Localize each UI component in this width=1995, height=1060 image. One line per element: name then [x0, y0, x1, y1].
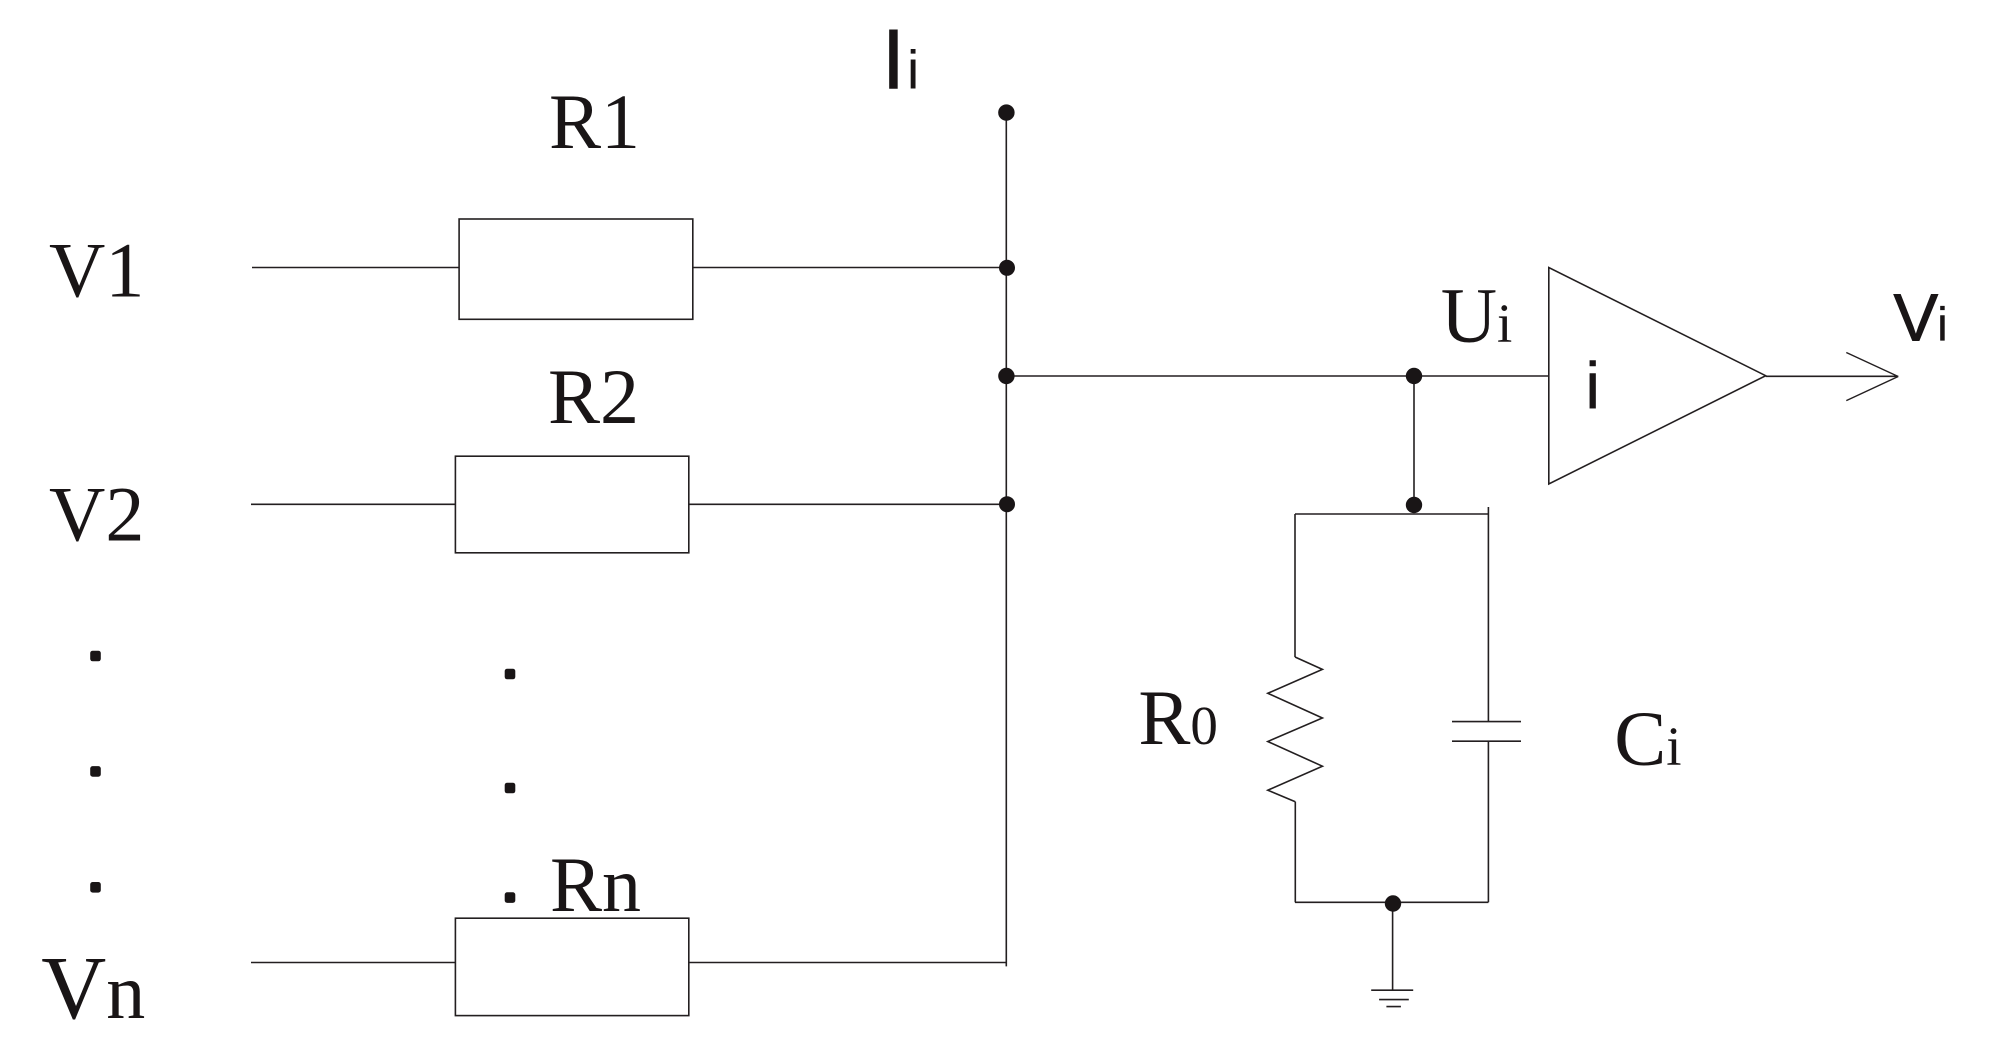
wire Vn input — [251, 962, 455, 964]
wire R1 to bus — [693, 267, 1007, 269]
svg-text:V2: V2 — [49, 470, 144, 557]
node Ii top dot — [998, 104, 1014, 120]
svg-text:i: i — [1937, 297, 1947, 350]
op-amp i — [1549, 268, 1766, 485]
ground — [1371, 990, 1413, 1006]
capacitor Ci — [1452, 722, 1521, 742]
wire node Ui — [1006, 375, 1549, 377]
ellipsis dots middle — [505, 669, 516, 680]
svg-text:i: i — [907, 39, 919, 101]
node V2-bus junction — [999, 496, 1015, 512]
svg-text:V1: V1 — [49, 227, 144, 314]
node RC top junction — [1406, 497, 1422, 513]
wire R2 to bus — [689, 503, 1007, 505]
node V1-bus junction — [999, 260, 1015, 276]
wire Ci top lead — [1487, 507, 1489, 721]
svg-text:i: i — [1585, 349, 1600, 423]
wire R0 bottom lead — [1294, 802, 1296, 903]
resistor R1 — [459, 219, 693, 319]
svg-text:Ui: Ui — [1441, 272, 1513, 359]
wire summing bus — [1005, 113, 1007, 967]
svg-text:I: I — [882, 13, 906, 108]
svg-text:Ci: Ci — [1614, 695, 1681, 782]
wire output Vi — [1766, 375, 1899, 377]
svg-text:Rn: Rn — [550, 841, 641, 928]
arrow output — [1846, 353, 1898, 401]
svg-text:R1: R1 — [549, 78, 640, 165]
resistor Rn — [455, 918, 688, 1015]
svg-text:R0: R0 — [1138, 674, 1218, 761]
svg-text:Vn: Vn — [41, 939, 145, 1038]
node bus-Ui junction — [998, 368, 1014, 384]
wire R0 top lead — [1294, 514, 1296, 657]
svg-text:R2: R2 — [548, 353, 639, 440]
wire Rn to bus — [689, 962, 1007, 964]
wire V1 input — [252, 267, 459, 269]
wire ground stem — [1392, 904, 1394, 991]
wire RC top — [1295, 513, 1488, 515]
wire RC bottom — [1295, 901, 1488, 903]
node Ui-RC junction — [1406, 368, 1422, 384]
wire Ci bottom lead — [1487, 741, 1489, 902]
resistor R2 — [455, 456, 688, 553]
node RC bottom junction — [1385, 895, 1401, 911]
ellipsis dots left — [90, 651, 101, 662]
wire Ui drop to RC — [1413, 376, 1415, 505]
svg-text:V: V — [1894, 280, 1939, 355]
resistor R0 — [1268, 657, 1323, 802]
wire V2 input — [251, 503, 455, 505]
